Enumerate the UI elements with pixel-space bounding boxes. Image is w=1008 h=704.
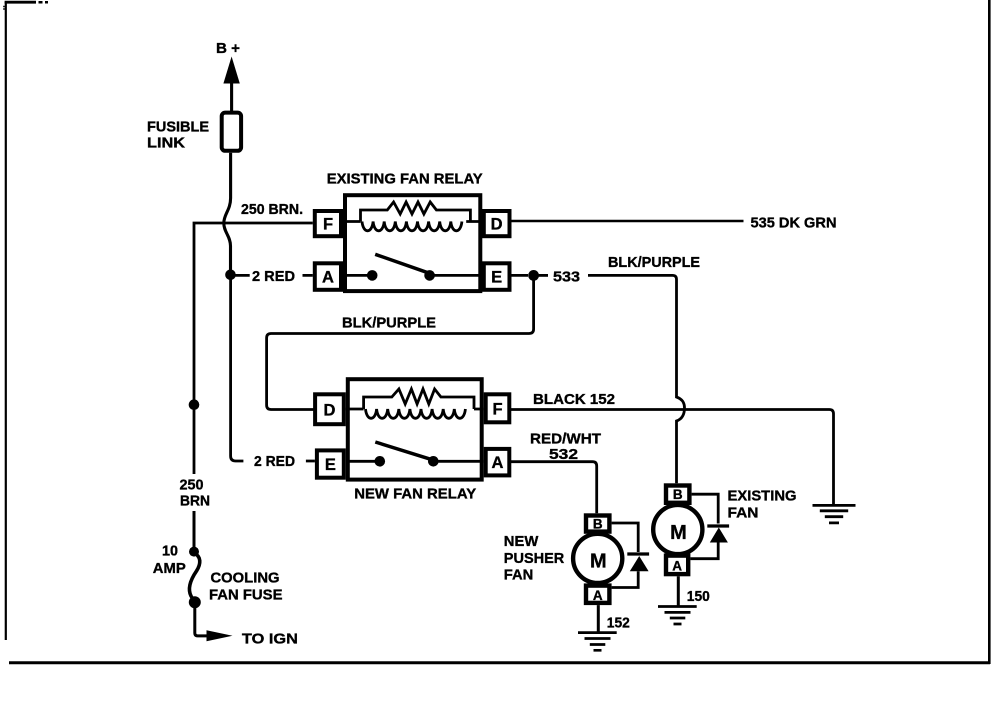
svg-text:535 DK GRN: 535 DK GRN (751, 215, 837, 232)
svg-text:RED/WHT: RED/WHT (530, 431, 601, 448)
svg-text:TO IGN: TO IGN (242, 630, 298, 647)
svg-text:BLACK 152: BLACK 152 (533, 391, 615, 408)
svg-text:F: F (492, 400, 502, 418)
svg-text:250 BRN.: 250 BRN. (241, 201, 303, 218)
svg-text:M: M (590, 551, 607, 573)
svg-text:PUSHER: PUSHER (504, 550, 565, 567)
svg-text:250: 250 (180, 477, 204, 494)
svg-text:NEW: NEW (504, 533, 539, 550)
svg-text:E: E (325, 456, 336, 474)
svg-text:2 RED: 2 RED (254, 453, 295, 470)
svg-text:AMP: AMP (153, 560, 186, 577)
svg-text:F: F (323, 216, 333, 234)
svg-text:BLK/PURPLE: BLK/PURPLE (608, 254, 700, 271)
svg-text:A: A (492, 454, 504, 472)
svg-text:BRN: BRN (180, 493, 210, 510)
svg-text:FUSIBLE: FUSIBLE (147, 119, 209, 136)
svg-text:B +: B + (216, 40, 240, 57)
svg-text:E: E (491, 269, 502, 287)
svg-text:BLK/PURPLE: BLK/PURPLE (342, 315, 436, 332)
svg-text:533: 533 (553, 269, 580, 286)
svg-text:COOLING: COOLING (211, 570, 280, 587)
svg-text:FAN FUSE: FAN FUSE (209, 587, 283, 604)
svg-text:B: B (593, 516, 603, 531)
svg-text:2 RED: 2 RED (252, 268, 295, 285)
svg-text:532: 532 (549, 446, 578, 463)
svg-text:D: D (324, 401, 336, 419)
svg-text:EXISTING: EXISTING (728, 488, 797, 505)
svg-text:FAN: FAN (728, 505, 759, 522)
svg-text:LINK: LINK (147, 135, 185, 152)
svg-text:152: 152 (607, 615, 630, 632)
svg-text:A: A (322, 269, 334, 287)
svg-text:B: B (673, 487, 683, 502)
svg-text:M: M (670, 522, 687, 544)
svg-text:150: 150 (687, 588, 710, 605)
svg-text:EXISTING FAN RELAY: EXISTING FAN RELAY (327, 171, 483, 188)
svg-text:A: A (672, 558, 682, 573)
svg-text:D: D (491, 216, 503, 234)
svg-text:FAN: FAN (504, 567, 534, 584)
svg-text:NEW FAN RELAY: NEW FAN RELAY (354, 486, 476, 503)
svg-text:10: 10 (162, 543, 178, 560)
svg-text:A: A (593, 588, 603, 603)
